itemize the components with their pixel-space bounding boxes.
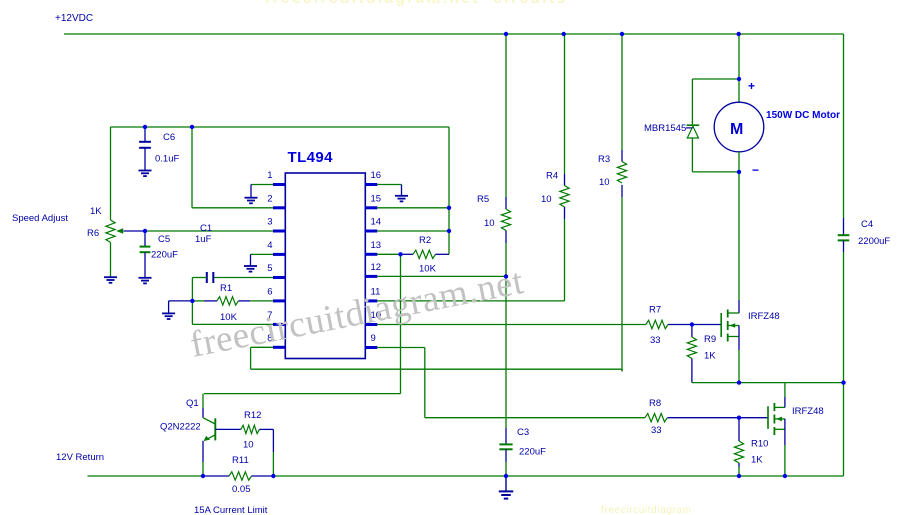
svg-text:5: 5 <box>267 263 272 274</box>
svg-text:C4: C4 <box>861 219 873 230</box>
svg-text:33: 33 <box>651 425 662 436</box>
svg-text:10: 10 <box>484 218 495 229</box>
svg-text:R6: R6 <box>87 228 99 239</box>
svg-text:R2: R2 <box>419 235 431 246</box>
svg-text:1K: 1K <box>704 351 716 362</box>
svg-text:R11: R11 <box>232 455 249 466</box>
svg-text:MBR1545: MBR1545 <box>644 123 686 134</box>
svg-text:220uF: 220uF <box>519 447 546 458</box>
svg-text:R3: R3 <box>598 154 610 165</box>
svg-text:Q2N2222: Q2N2222 <box>160 422 201 433</box>
svg-text:10K: 10K <box>419 264 437 275</box>
svg-text:1K: 1K <box>751 455 763 466</box>
svg-text:TL494: TL494 <box>288 149 334 166</box>
svg-text:R8: R8 <box>649 398 661 409</box>
svg-text:33: 33 <box>650 335 661 346</box>
svg-text:R9: R9 <box>704 334 716 345</box>
svg-text:10: 10 <box>541 194 552 205</box>
svg-text:12: 12 <box>371 262 382 273</box>
svg-text:R7: R7 <box>649 305 661 316</box>
svg-text:1K: 1K <box>90 206 102 217</box>
svg-text:6: 6 <box>267 286 272 297</box>
svg-text:C5: C5 <box>158 234 170 245</box>
svg-text:15A Current Limit: 15A Current Limit <box>194 505 268 515</box>
svg-text:C1: C1 <box>200 223 212 234</box>
svg-text:13: 13 <box>371 240 382 251</box>
svg-text:−: − <box>752 163 759 177</box>
svg-text:2: 2 <box>267 193 272 204</box>
svg-text:16: 16 <box>371 170 382 181</box>
svg-text:R5: R5 <box>477 194 489 205</box>
svg-text:IRFZ48: IRFZ48 <box>748 311 780 322</box>
svg-text:220uF: 220uF <box>151 250 178 261</box>
svg-text:15: 15 <box>371 193 382 204</box>
svg-text:10: 10 <box>599 177 610 188</box>
svg-text:R10: R10 <box>751 439 768 450</box>
svg-text:1: 1 <box>267 170 272 181</box>
svg-text:10: 10 <box>243 440 254 451</box>
svg-text:C6: C6 <box>163 132 175 143</box>
svg-text:12V Return: 12V Return <box>56 452 104 463</box>
svg-text:IRFZ48: IRFZ48 <box>792 406 824 417</box>
svg-text:9: 9 <box>371 333 376 344</box>
svg-text:M: M <box>730 121 743 138</box>
svg-text:+12VDC: +12VDC <box>55 13 93 24</box>
svg-text:1uF: 1uF <box>195 234 212 245</box>
svg-text:3: 3 <box>267 217 272 228</box>
svg-text:14: 14 <box>371 217 382 228</box>
svg-text:freecircuitdiagram: freecircuitdiagram <box>601 505 691 515</box>
svg-text:+: + <box>748 79 755 93</box>
svg-text:0.05: 0.05 <box>232 484 251 495</box>
svg-text:4: 4 <box>267 240 272 251</box>
svg-text:freecircuitdiagram.net circui: freecircuitdiagram.net circuits <box>265 0 565 7</box>
svg-text:R1: R1 <box>220 283 232 294</box>
svg-text:C3: C3 <box>517 427 529 438</box>
svg-text:Q1: Q1 <box>186 398 199 409</box>
svg-text:0.1uF: 0.1uF <box>155 154 179 165</box>
svg-text:R12: R12 <box>244 410 261 421</box>
svg-text:2200uF: 2200uF <box>858 236 890 247</box>
svg-text:R4: R4 <box>546 171 558 182</box>
svg-text:150W DC Motor: 150W DC Motor <box>766 110 840 121</box>
svg-text:Speed Adjust: Speed Adjust <box>12 213 68 224</box>
